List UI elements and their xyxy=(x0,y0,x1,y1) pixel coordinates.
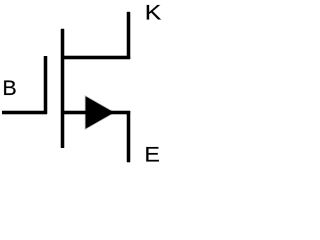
svg-text:E: E xyxy=(144,143,160,167)
wire emitter horizontal xyxy=(62,110,130,115)
wire emitter vertical to E xyxy=(126,111,131,162)
emitter arrow of Q1 xyxy=(86,96,115,128)
transistor Q1 base bar (gate plate) xyxy=(43,56,48,114)
svg-text:B: B xyxy=(2,76,16,100)
wire base terminal B xyxy=(2,110,47,115)
wire collector horizontal xyxy=(62,55,130,60)
transistor Q1 body bar xyxy=(60,29,65,148)
svg-text:K: K xyxy=(145,1,162,25)
wire collector vertical to K xyxy=(126,12,131,59)
